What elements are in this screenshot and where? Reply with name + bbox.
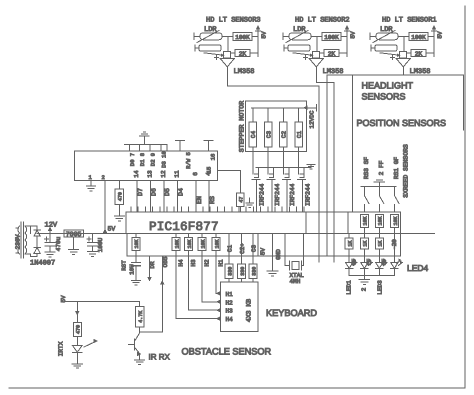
svg-text:C2+: C2+: [239, 243, 246, 254]
svg-text:100U: 100U: [97, 237, 104, 252]
svg-text:2K: 2K: [328, 50, 336, 57]
svg-text:D5: D5: [164, 188, 171, 196]
svg-text:4: 4: [205, 172, 212, 176]
svg-text:C1: C1: [227, 245, 234, 253]
svg-text:11: 11: [174, 170, 181, 178]
svg-text:PIC16F877: PIC16F877: [149, 220, 219, 234]
svg-text:D2 9: D2 9: [150, 153, 157, 166]
svg-text:16: 16: [209, 154, 216, 161]
svg-text:5V: 5V: [437, 31, 444, 39]
svg-text:2: 2: [102, 174, 105, 181]
svg-text:C4: C4: [250, 131, 257, 139]
svg-text:2K: 2K: [239, 50, 247, 57]
svg-text:6: 6: [192, 172, 199, 176]
svg-text:IRF244: IRF244: [289, 183, 296, 206]
svg-text:C2: C2: [281, 131, 288, 139]
svg-text:C1: C1: [296, 131, 303, 139]
svg-text:KEYBOARD: KEYBOARD: [266, 308, 317, 318]
svg-text:10K: 10K: [200, 239, 206, 248]
svg-text:10K: 10K: [214, 239, 220, 248]
svg-text:IRTX: IRTX: [58, 341, 65, 356]
svg-text:D1 8: D1 8: [139, 153, 146, 166]
svg-text:10K: 10K: [393, 216, 399, 225]
svg-text:STEPPER MOTOR: STEPPER MOTOR: [238, 101, 245, 152]
svg-text:RS1 GF: RS1 GF: [393, 157, 400, 180]
svg-text:H2: H2: [203, 259, 210, 267]
svg-text:HD LT SENSOR3: HD LT SENSOR3: [206, 17, 261, 25]
svg-text:100K: 100K: [324, 34, 339, 41]
svg-text:FF: FF: [366, 259, 373, 266]
svg-text:12: 12: [160, 170, 167, 178]
svg-text:GF: GF: [350, 259, 357, 266]
svg-text:SENSORS: SENSORS: [362, 91, 406, 101]
svg-text:RS: RS: [209, 196, 216, 204]
svg-text:2: 2: [361, 287, 368, 291]
svg-text:1K: 1K: [348, 241, 354, 247]
svg-text:RST: RST: [121, 260, 128, 271]
svg-text:LM358: LM358: [234, 68, 255, 76]
svg-text:LED4: LED4: [407, 263, 429, 273]
svg-text:10K: 10K: [363, 216, 369, 225]
svg-text:5V: 5V: [259, 248, 266, 256]
svg-text:330: 330: [251, 267, 257, 276]
svg-text:2K: 2K: [415, 50, 423, 57]
svg-text:H4: H4: [226, 316, 234, 323]
svg-text:R/W 5: R/W 5: [185, 152, 192, 169]
svg-text:SF: SF: [380, 259, 387, 266]
svg-text:POSITION SENSORS: POSITION SENSORS: [357, 118, 447, 128]
svg-text:12V: 12V: [45, 222, 58, 230]
svg-text:D7: D7: [137, 188, 144, 196]
svg-text:D6: D6: [151, 188, 158, 196]
svg-text:4MH: 4MH: [290, 278, 301, 285]
svg-text:C3: C3: [265, 131, 272, 139]
svg-text:D4: D4: [178, 188, 185, 196]
svg-text:10K: 10K: [187, 239, 193, 248]
svg-text:H3: H3: [190, 259, 197, 267]
svg-text:330: 330: [227, 267, 233, 276]
svg-text:330: 330: [240, 267, 246, 276]
svg-text:1N4007: 1N4007: [30, 260, 55, 268]
svg-text:OBS: OBS: [162, 256, 169, 267]
svg-text:1K: 1K: [378, 241, 384, 247]
svg-text:14: 14: [133, 170, 140, 178]
svg-text:4X3 KB: 4X3 KB: [245, 299, 252, 323]
svg-text:5V: 5V: [261, 31, 268, 39]
svg-text:5V: 5V: [108, 226, 116, 233]
svg-text:HD LT SENSOR1: HD LT SENSOR1: [382, 17, 437, 25]
svg-text:10K: 10K: [174, 239, 180, 248]
svg-text:H3: H3: [226, 308, 234, 315]
svg-text:4.7K: 4.7K: [138, 311, 144, 323]
svg-text:IRF244: IRF244: [304, 183, 311, 206]
svg-text:H1: H1: [217, 259, 224, 267]
svg-text:IRF244: IRF244: [259, 183, 266, 206]
svg-text:10U: 10U: [129, 264, 136, 275]
svg-text:10K: 10K: [378, 216, 384, 225]
svg-text:EN: EN: [196, 196, 203, 204]
svg-text:H1: H1: [226, 291, 234, 298]
svg-text:C3: C3: [251, 245, 258, 253]
svg-text:-20: -20: [391, 239, 398, 250]
svg-text:100K: 100K: [235, 34, 250, 41]
svg-text:100K: 100K: [411, 34, 426, 41]
svg-text:47: 47: [238, 197, 244, 203]
svg-text:LED3: LED3: [376, 280, 383, 295]
svg-text:470u: 470u: [55, 236, 62, 251]
svg-text:5V: 5V: [350, 31, 357, 39]
svg-text:2 FF: 2 FF: [378, 160, 385, 175]
svg-text:RS3 SF: RS3 SF: [363, 157, 370, 180]
svg-text:HD LT SENSOR2: HD LT SENSOR2: [295, 17, 350, 25]
svg-text:D0 7: D0 7: [129, 153, 136, 166]
svg-text:13: 13: [147, 170, 154, 178]
svg-text:470: 470: [118, 192, 124, 201]
svg-text:12VDC: 12VDC: [309, 110, 316, 128]
svg-text:IRF244: IRF244: [274, 183, 281, 206]
svg-text:OBSTACLE SENSOR: OBSTACLE SENSOR: [182, 347, 272, 357]
svg-text:LED1: LED1: [346, 280, 353, 295]
svg-text:1K: 1K: [363, 241, 369, 247]
svg-text:IR RX: IR RX: [149, 353, 171, 362]
svg-text:DR: DR: [149, 261, 156, 269]
svg-text:H4: H4: [177, 259, 184, 267]
svg-text:3XREED SENSORS: 3XREED SENSORS: [403, 144, 410, 198]
svg-text:470: 470: [76, 325, 82, 334]
svg-text:D3 10: D3 10: [161, 151, 168, 168]
svg-text:10K: 10K: [134, 239, 140, 248]
svg-text:H2: H2: [226, 299, 234, 306]
svg-text:GND: GND: [275, 249, 282, 260]
svg-text:HEADLIGHT: HEADLIGHT: [362, 81, 414, 91]
